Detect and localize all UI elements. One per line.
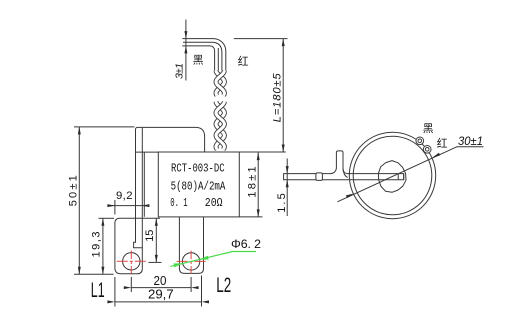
side view lead wire with bend bbox=[284, 151, 404, 180]
toroid outer circle bbox=[349, 132, 435, 218]
terminal foot L1 bbox=[115, 218, 160, 273]
dim L=180±5 bbox=[234, 38, 288, 40]
svg-text:30±1: 30±1 bbox=[458, 134, 483, 148]
dim 1.5 bbox=[286, 159, 288, 217]
dim 18±1 bbox=[239, 216, 262, 218]
svg-text:3±1: 3±1 bbox=[174, 63, 186, 79]
dim 9,2 bbox=[114, 200, 116, 215]
svg-text:Φ6. 2: Φ6. 2 bbox=[231, 237, 261, 251]
hole L2 bbox=[182, 253, 199, 270]
tab bottom edge / body top extension left bbox=[136, 151, 159, 153]
twisted pair braid upper bbox=[216, 71, 224, 96]
wire exit hole black bbox=[416, 137, 424, 145]
hole L1 bbox=[123, 253, 140, 270]
dim 50±1 bbox=[74, 126, 135, 128]
svg-text:黑: 黑 bbox=[193, 54, 204, 67]
dim 30±1 diagonal bbox=[337, 147, 457, 202]
wire top bend (stripped ends) bbox=[182, 39, 226, 71]
wire sleeve joint bbox=[316, 173, 323, 181]
toroid center hole bbox=[378, 161, 406, 193]
svg-text:20Ω: 20Ω bbox=[205, 197, 223, 210]
toroid inner ring bbox=[353, 136, 432, 215]
centerline cross L1 bbox=[117, 260, 146, 262]
svg-text:5(80)A/2mA: 5(80)A/2mA bbox=[171, 180, 226, 193]
svg-text:15: 15 bbox=[144, 230, 156, 242]
dim 19,3 bbox=[99, 217, 115, 219]
svg-text:L1: L1 bbox=[91, 278, 105, 302]
svg-text:红: 红 bbox=[437, 137, 448, 150]
wire end tick bbox=[397, 174, 399, 180]
primary busbar strip bbox=[141, 128, 143, 152]
terminal leg L2 bbox=[179, 217, 203, 274]
wire exit hole red bbox=[423, 145, 431, 153]
svg-text:1.5: 1.5 bbox=[276, 193, 288, 213]
svg-text:L=180±5: L=180±5 bbox=[272, 73, 284, 123]
svg-text:RCT-003-DC: RCT-003-DC bbox=[171, 163, 225, 176]
dim 29,7 bbox=[114, 277, 116, 307]
svg-text:29,7: 29,7 bbox=[148, 288, 174, 302]
primary busbar tab (top) bbox=[136, 127, 205, 152]
svg-text:黑: 黑 bbox=[423, 122, 434, 135]
svg-text:19,3: 19,3 bbox=[90, 232, 102, 258]
dim 3±1 bbox=[185, 20, 187, 81]
dim 15 bbox=[155, 218, 157, 262]
centerline cross L2 bbox=[177, 260, 206, 262]
svg-text:9,2: 9,2 bbox=[116, 190, 133, 202]
CT body block bbox=[158, 152, 239, 217]
svg-text:0. 1: 0. 1 bbox=[170, 197, 188, 210]
svg-text:L2: L2 bbox=[216, 273, 231, 297]
twisted pair braid lower bbox=[216, 102, 224, 150]
svg-text:红: 红 bbox=[238, 55, 249, 68]
svg-text:20: 20 bbox=[154, 274, 167, 288]
dim 20 bbox=[130, 277, 132, 292]
lead bend outer curve bbox=[343, 168, 348, 177]
